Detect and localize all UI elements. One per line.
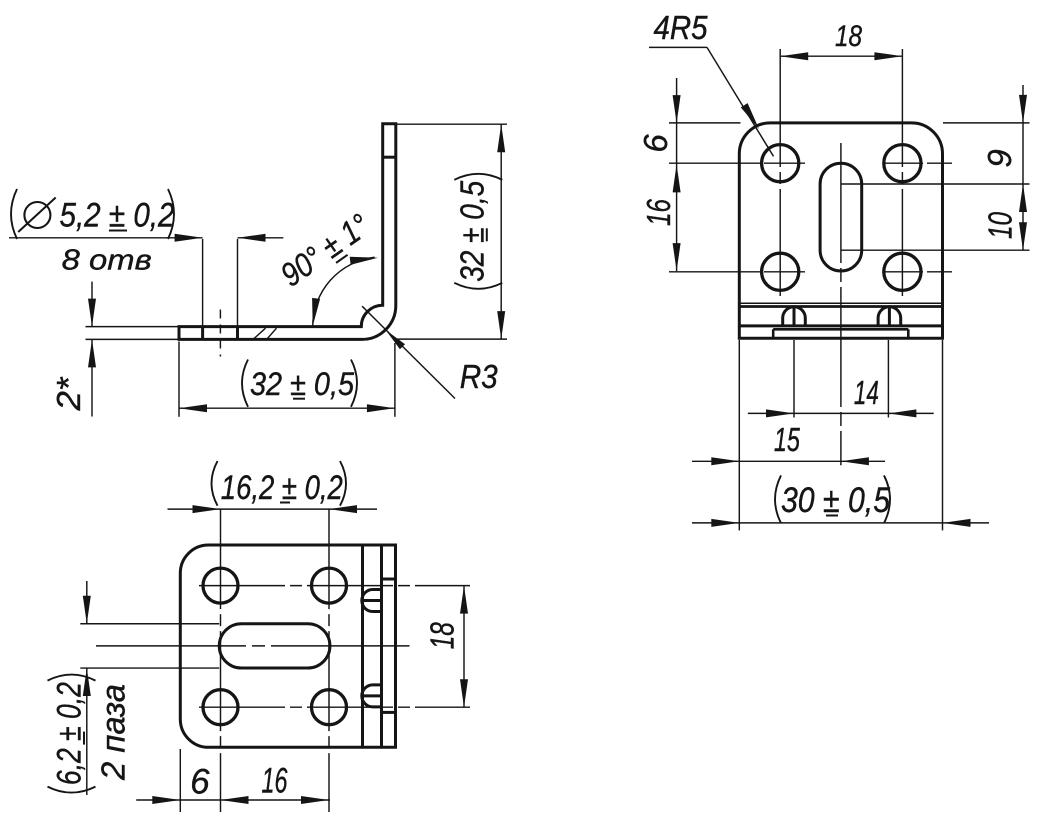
svg-text:14: 14 (854, 374, 879, 411)
svg-text:30 ± 0,5: 30 ± 0,5 (781, 481, 890, 520)
svg-text:32 ± 0,5: 32 ± 0,5 (250, 366, 354, 402)
svg-text:6: 6 (637, 134, 674, 153)
svg-text:16,2 ± 0,2: 16,2 ± 0,2 (221, 469, 343, 507)
svg-text:16: 16 (262, 762, 288, 801)
svg-text:15: 15 (774, 421, 800, 458)
svg-text:18: 18 (835, 20, 862, 53)
svg-text:18: 18 (424, 622, 461, 649)
svg-text:10: 10 (982, 212, 1019, 239)
svg-text:4R5: 4R5 (654, 9, 709, 46)
svg-text:16: 16 (640, 199, 677, 226)
svg-text:32 ± 0,5: 32 ± 0,5 (453, 180, 490, 282)
svg-text:5,2 ± 0,2: 5,2 ± 0,2 (60, 197, 175, 235)
svg-text:6: 6 (190, 763, 210, 802)
svg-text:R3: R3 (460, 358, 499, 395)
svg-text:8 отв: 8 отв (62, 244, 152, 276)
svg-text:6,2 ± 0,2: 6,2 ± 0,2 (51, 682, 89, 785)
svg-text:2 паза: 2 паза (95, 684, 132, 781)
svg-text:9: 9 (981, 149, 1018, 167)
svg-text:2*: 2* (50, 376, 87, 411)
